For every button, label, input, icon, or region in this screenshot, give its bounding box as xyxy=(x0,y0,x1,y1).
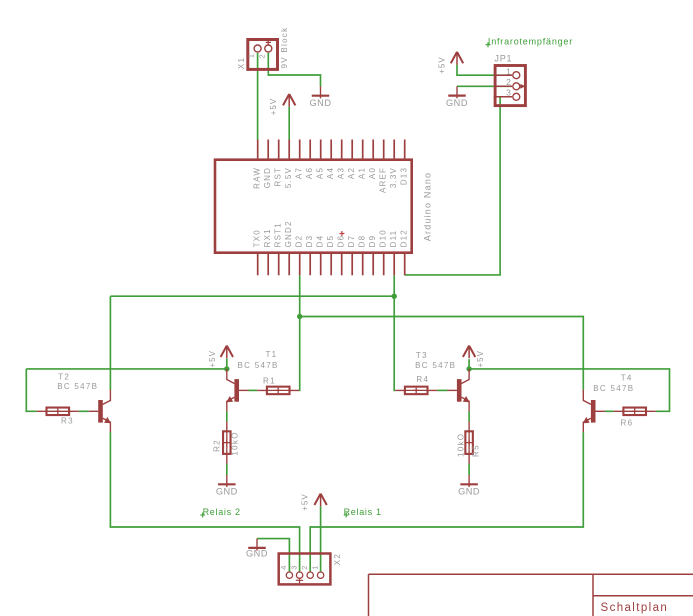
svg-text:2: 2 xyxy=(506,77,511,87)
svg-text:RAW: RAW xyxy=(253,167,262,189)
svg-text:A0: A0 xyxy=(368,167,377,179)
svg-text:GND: GND xyxy=(458,487,480,497)
svg-text:9V Block: 9V Block xyxy=(280,27,289,69)
svg-text:GND: GND xyxy=(216,487,238,497)
svg-text:10kO: 10kO xyxy=(456,433,465,457)
svg-text:Infrarotempfänger: Infrarotempfänger xyxy=(488,37,573,47)
svg-text:D2: D2 xyxy=(295,235,304,248)
svg-text:R2: R2 xyxy=(212,439,221,452)
svg-text:+5V: +5V xyxy=(476,350,485,367)
svg-text:3: 3 xyxy=(506,87,511,97)
svg-text:X1: X1 xyxy=(237,57,246,69)
svg-text:3: 3 xyxy=(289,566,298,570)
svg-text:GND2: GND2 xyxy=(284,220,293,247)
svg-text:Schaltplan: Schaltplan xyxy=(601,602,669,614)
svg-text:+5V: +5V xyxy=(301,493,310,510)
svg-text:T1: T1 xyxy=(266,350,278,359)
svg-text:AREF: AREF xyxy=(379,167,388,193)
svg-text:X2: X2 xyxy=(333,553,342,565)
svg-text:RST: RST xyxy=(274,167,283,187)
svg-text:A2: A2 xyxy=(347,167,356,179)
svg-text:1: 1 xyxy=(246,54,255,58)
svg-text:D5: D5 xyxy=(326,235,335,248)
svg-text:D8: D8 xyxy=(358,235,367,248)
svg-text:A6: A6 xyxy=(305,167,314,179)
svg-text:Arduino Nano: Arduino Nano xyxy=(423,172,433,241)
svg-text:R5: R5 xyxy=(472,444,481,457)
svg-text:D4: D4 xyxy=(316,235,325,248)
svg-text:GND: GND xyxy=(446,98,468,108)
svg-text:A7: A7 xyxy=(295,167,304,179)
svg-text:GND: GND xyxy=(263,167,272,188)
svg-text:Relais 2: Relais 2 xyxy=(203,507,241,517)
svg-text:D7: D7 xyxy=(347,235,356,248)
svg-text:R4: R4 xyxy=(416,375,429,384)
svg-text:2: 2 xyxy=(258,54,267,58)
svg-text:GND: GND xyxy=(246,549,268,559)
svg-text:RST1: RST1 xyxy=(274,222,283,247)
svg-text:TX0: TX0 xyxy=(253,229,262,247)
svg-text:T4: T4 xyxy=(621,373,633,382)
svg-text:A4: A4 xyxy=(326,167,335,179)
svg-text:JP1: JP1 xyxy=(494,54,512,64)
svg-text:D13: D13 xyxy=(400,167,409,185)
svg-text:10kO: 10kO xyxy=(231,431,240,455)
svg-text:1: 1 xyxy=(506,66,511,76)
svg-text:+5V: +5V xyxy=(208,350,217,367)
svg-text:T3: T3 xyxy=(416,351,428,360)
svg-text:RX1: RX1 xyxy=(263,228,272,247)
svg-text:Relais 1: Relais 1 xyxy=(344,507,382,517)
svg-text:R1: R1 xyxy=(263,377,276,386)
svg-text:BC 547B: BC 547B xyxy=(238,361,279,370)
svg-text:R3: R3 xyxy=(61,416,74,425)
svg-text:A5: A5 xyxy=(316,167,325,179)
svg-text:D9: D9 xyxy=(368,235,377,248)
svg-text:BC 547B: BC 547B xyxy=(415,361,456,370)
svg-text:T2: T2 xyxy=(58,373,70,382)
svg-text:D10: D10 xyxy=(379,229,388,247)
svg-text:BC 547B: BC 547B xyxy=(593,384,634,393)
svg-text:3.3V: 3.3V xyxy=(389,167,398,188)
svg-text:D6: D6 xyxy=(337,235,346,248)
svg-text:1: 1 xyxy=(310,566,319,570)
svg-text:2: 2 xyxy=(300,566,309,570)
svg-text:D11: D11 xyxy=(389,230,398,248)
svg-text:+5V: +5V xyxy=(438,56,447,73)
svg-text:BC 547B: BC 547B xyxy=(57,382,98,391)
svg-text:GND: GND xyxy=(310,98,332,108)
svg-text:D3: D3 xyxy=(305,235,314,248)
svg-text:+5V: +5V xyxy=(269,98,278,115)
svg-text:A1: A1 xyxy=(358,167,367,179)
svg-text:5.5V: 5.5V xyxy=(284,167,293,188)
svg-text:D12: D12 xyxy=(400,229,409,247)
svg-text:R6: R6 xyxy=(621,419,634,428)
svg-text:A3: A3 xyxy=(337,167,346,179)
svg-text:4: 4 xyxy=(279,566,288,570)
